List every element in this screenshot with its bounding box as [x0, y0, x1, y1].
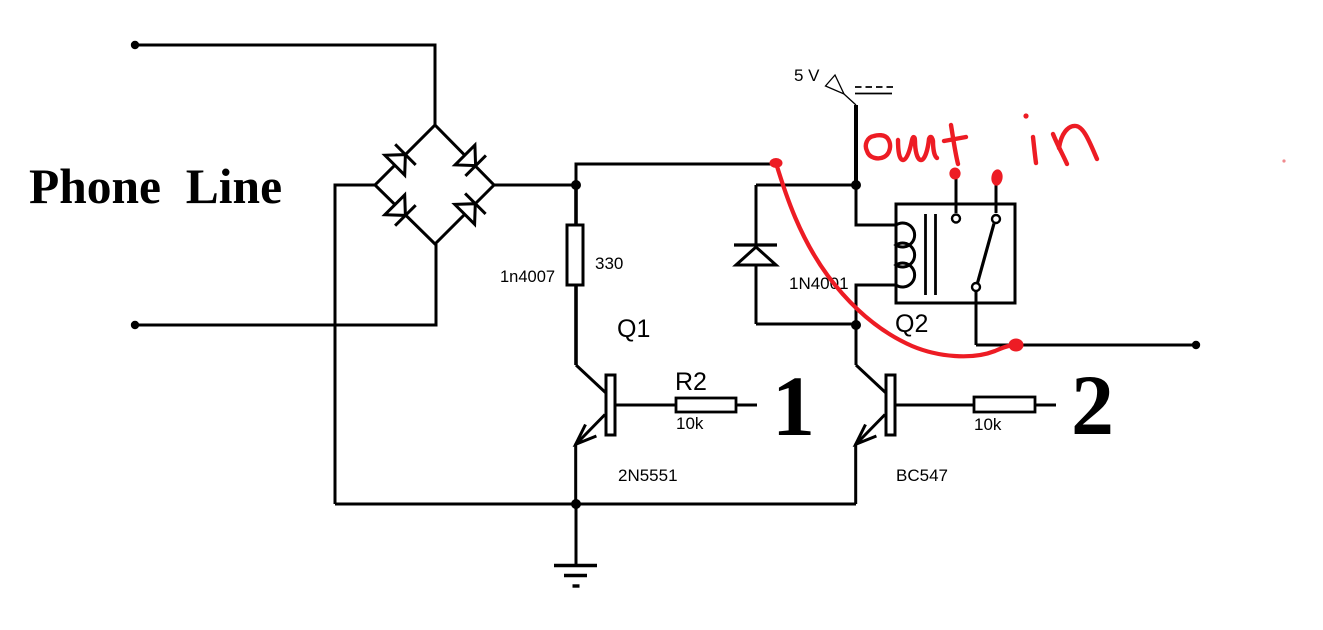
transistor Q1 emitter arrow [576, 425, 597, 445]
wire 5V drop [854, 105, 858, 185]
svg-text:5 V: 5 V [794, 66, 820, 85]
svg-text:BC547: BC547 [896, 466, 948, 485]
svg-text:Phone Line: Phone Line [29, 159, 282, 214]
red blob output [1009, 339, 1024, 352]
ground [554, 566, 597, 587]
bridge diode upper-left [385, 144, 416, 175]
svg-text:Q2: Q2 [895, 310, 928, 338]
wire ground bus [335, 503, 856, 506]
transistor Q1 base bar [606, 375, 615, 435]
junction emitter Q1 / ground [571, 499, 581, 509]
relay K1 box [896, 204, 1015, 303]
wire Q1 base [615, 404, 676, 407]
bridge diode upper-right [455, 145, 486, 176]
svg-text:Q1: Q1 [617, 315, 650, 343]
svg-text:10k: 10k [974, 415, 1002, 434]
resistor 330 lead top [574, 185, 578, 225]
red dot relay pin in [990, 169, 1003, 187]
resistor 10k lead right [1035, 404, 1056, 407]
supply 5V arrow symbol [826, 75, 845, 94]
relay switch common circle [972, 283, 980, 291]
relay switch common stub [975, 292, 978, 345]
junction node A [571, 180, 581, 190]
transistor Q2 emitter [856, 415, 885, 505]
supply lead diagonal [844, 94, 856, 105]
wire phone line top [135, 45, 435, 125]
svg-text:330: 330 [595, 254, 623, 273]
transistor Q2 collector [856, 365, 886, 393]
relay coil [856, 185, 915, 365]
wire Q2 base [895, 404, 974, 407]
wire flyback bottom [756, 323, 856, 326]
transistor Q1 emitter [576, 415, 605, 505]
transistor Q2 base bar [886, 375, 895, 435]
wire flyback top [756, 184, 856, 187]
wire to ground [575, 504, 578, 565]
relay switch arm [978, 224, 995, 284]
junction coil bottom node [851, 320, 861, 330]
wire relay output [976, 344, 1196, 347]
relay switch contact stub in [995, 180, 998, 213]
supply dashed mark [855, 86, 893, 88]
resistor 330 lead bottom [574, 285, 578, 365]
terminal dot top-left [131, 41, 139, 49]
bridge diode lower-right [455, 193, 486, 224]
red blob node A [770, 158, 783, 168]
wire bridge left to ground bus [335, 185, 375, 504]
diode bridge frame [375, 125, 494, 244]
red dot relay pin out [949, 168, 960, 180]
diode 1N4001 [734, 185, 777, 324]
red speck far right [1282, 159, 1285, 162]
supply solid mark [855, 93, 892, 95]
wire phone line bottom [135, 244, 436, 325]
svg-text:1: 1 [772, 358, 815, 454]
red annotation curve [776, 163, 1015, 356]
resistor 330 body [567, 225, 583, 285]
red handwriting in [1033, 126, 1097, 164]
relay switch contact stub out [955, 175, 958, 213]
svg-text:10k: 10k [676, 414, 704, 433]
bridge diode lower-left [385, 195, 416, 226]
relay switch contact circle out [952, 215, 960, 223]
terminal dot bottom-left [131, 321, 139, 329]
resistor R2 body [676, 398, 736, 412]
svg-text:2N5551: 2N5551 [618, 466, 678, 485]
transistor Q2 emitter arrow [856, 425, 877, 445]
relay switch contact circle in [992, 215, 1000, 223]
red dot i of in [1023, 113, 1028, 118]
svg-text:1n4007: 1n4007 [500, 268, 555, 286]
relay core [926, 214, 936, 295]
resistor R2 lead right [736, 404, 757, 407]
svg-text:R2: R2 [675, 368, 707, 396]
terminal dot output right [1192, 341, 1200, 349]
wire node A stub (open end) [576, 164, 776, 185]
transistor Q1 collector [576, 365, 606, 393]
red handwriting out [866, 125, 966, 164]
svg-text:2: 2 [1071, 357, 1114, 453]
junction 5V node [851, 180, 861, 190]
wire bridge output to node A [494, 184, 576, 187]
resistor 10k body (Q2) [974, 397, 1035, 412]
